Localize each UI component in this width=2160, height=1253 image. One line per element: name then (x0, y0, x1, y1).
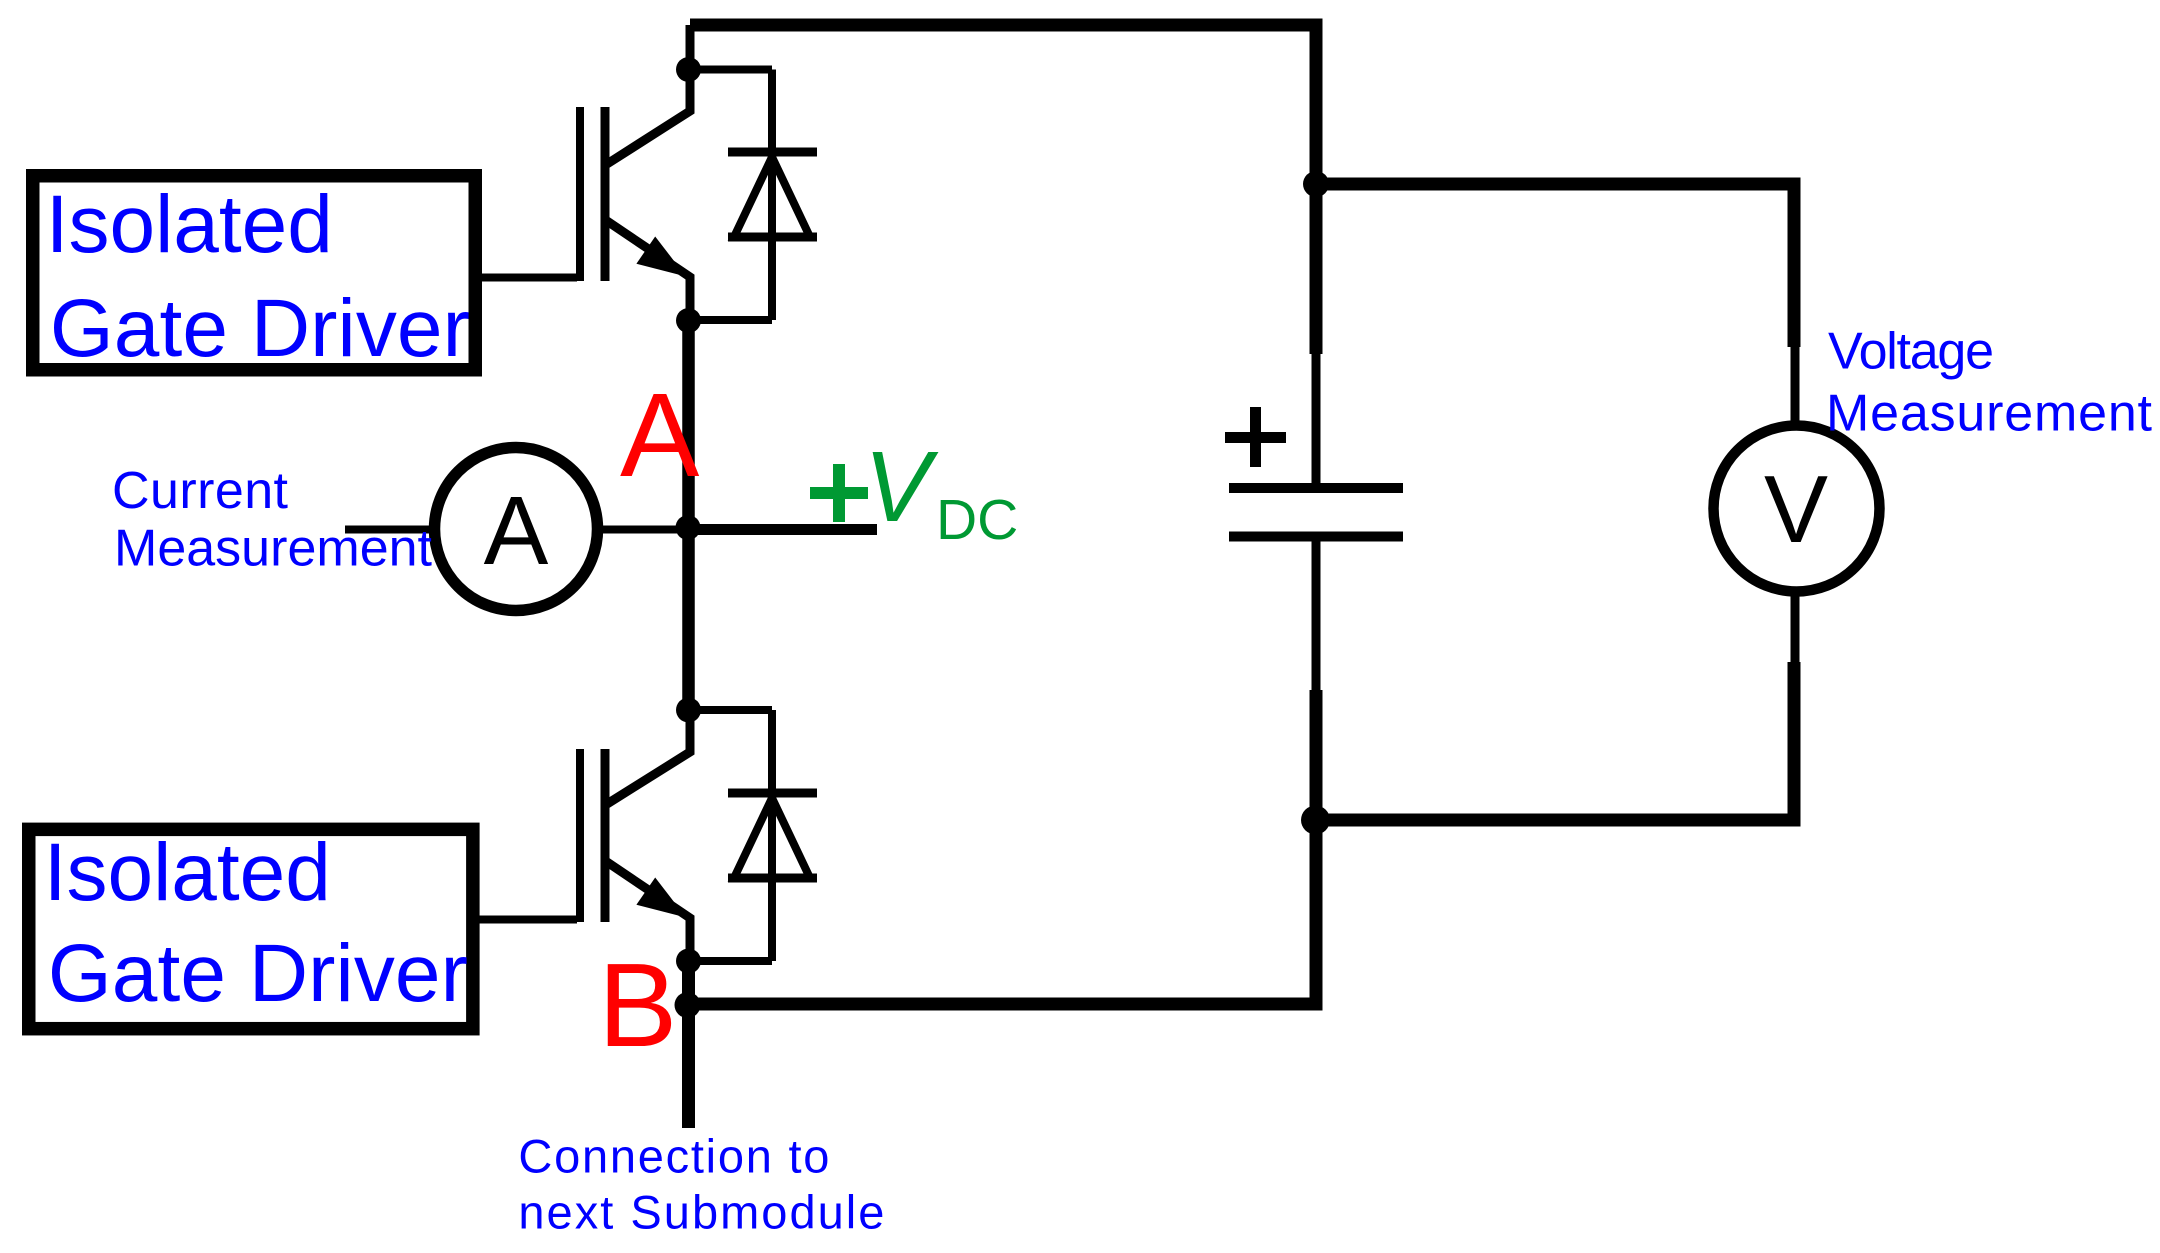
svg-text:A: A (484, 476, 549, 585)
wire voltmeter lower lead thin (1791, 587, 1800, 665)
wire capacitor upper lead thin (1312, 350, 1321, 484)
diode D1 triangle (734, 157, 810, 237)
wire diode D2 branch vertical (768, 710, 776, 961)
wire bottom rail node B to capacitor branch (687, 690, 1316, 1004)
svg-text:V: V (864, 431, 939, 543)
svg-text:Isolated: Isolated (44, 827, 331, 918)
wire capacitor lower lead thin (1312, 541, 1321, 695)
wire top DC bus (node A top rail to capacitor branch) (690, 25, 1316, 354)
svg-text:Connection to: Connection to (518, 1129, 829, 1182)
node B junction (675, 992, 701, 1018)
wire voltmeter bottom rail (1316, 662, 1794, 820)
svg-text:Measurement: Measurement (1826, 385, 2153, 443)
svg-text:A: A (620, 369, 700, 502)
diode D1 cathode bar (728, 148, 817, 157)
wire +VDC stub (688, 524, 877, 535)
svg-text:Isolated: Isolated (46, 179, 333, 270)
transistor Q2 emitter arrow (636, 878, 686, 918)
svg-text:Gate Driver: Gate Driver (50, 283, 470, 374)
wire diode D1 top connector (688, 66, 772, 74)
svg-text:Current: Current (112, 462, 289, 520)
ammeter circle (435, 448, 598, 611)
node A junction (676, 515, 701, 540)
diode D2 cathode bar (728, 789, 817, 798)
node junction capacitor bottom (1301, 806, 1330, 835)
capacitor C1 polarity plus sign (1225, 432, 1286, 443)
svg-text:Measurement: Measurement (114, 520, 433, 578)
svg-text:DC: DC (936, 488, 1018, 552)
diode D1 anode base bar (728, 233, 817, 242)
transistor Q2 gate bar left (576, 749, 584, 922)
svg-text:V: V (1764, 456, 1828, 563)
svg-text:Voltage: Voltage (1828, 323, 1994, 381)
wire voltmeter upper lead thin (1791, 347, 1800, 430)
wire voltmeter top rail (1316, 184, 1794, 347)
svg-text:B: B (598, 939, 677, 1072)
transistor Q2 emitter lead (607, 862, 690, 961)
wire diode D1 bottom connector (689, 316, 772, 324)
transistor Q2 collector lead (607, 710, 690, 804)
wire Q1 gate lead (480, 274, 577, 282)
node junction T2 emitter (676, 949, 701, 974)
gate driver box 1 (33, 176, 476, 370)
node junction T1 collector (676, 57, 701, 82)
node junction T2 collector (676, 698, 701, 723)
capacitor C1 top plate (1229, 483, 1403, 493)
wire diode D1 branch vertical (768, 70, 776, 321)
transistor Q1 emitter lead (607, 221, 690, 321)
wire top collector stub (686, 25, 695, 58)
label +VDC plus sign (green) (810, 487, 868, 499)
gate driver box 2 (29, 829, 473, 1028)
wire node B vertical with stub (682, 961, 695, 1128)
wire diode D2 top connector (688, 706, 772, 714)
svg-text:Gate Driver: Gate Driver (48, 928, 468, 1019)
transistor Q1 collector lead (607, 58, 690, 164)
wire Q2 gate lead (478, 916, 577, 924)
capacitor C1 bottom plate (1229, 532, 1403, 542)
node junction T1 emitter (676, 308, 701, 333)
wire diode D2 bottom connector (689, 957, 772, 965)
diode D2 triangle (734, 798, 810, 878)
voltmeter circle (1714, 426, 1880, 592)
wire ammeter left lead (345, 526, 437, 534)
wire ammeter right lead (595, 526, 688, 534)
wire phase leg middle vertical (682, 321, 695, 710)
transistor Q1 gate bar left (576, 107, 584, 281)
diode D2 anode base bar (728, 874, 817, 883)
transistor Q1 body bar right (601, 107, 610, 281)
transistor Q2 body bar right (601, 749, 610, 922)
transistor Q1 emitter arrow (636, 237, 686, 277)
node junction capacitor top (1303, 171, 1329, 197)
